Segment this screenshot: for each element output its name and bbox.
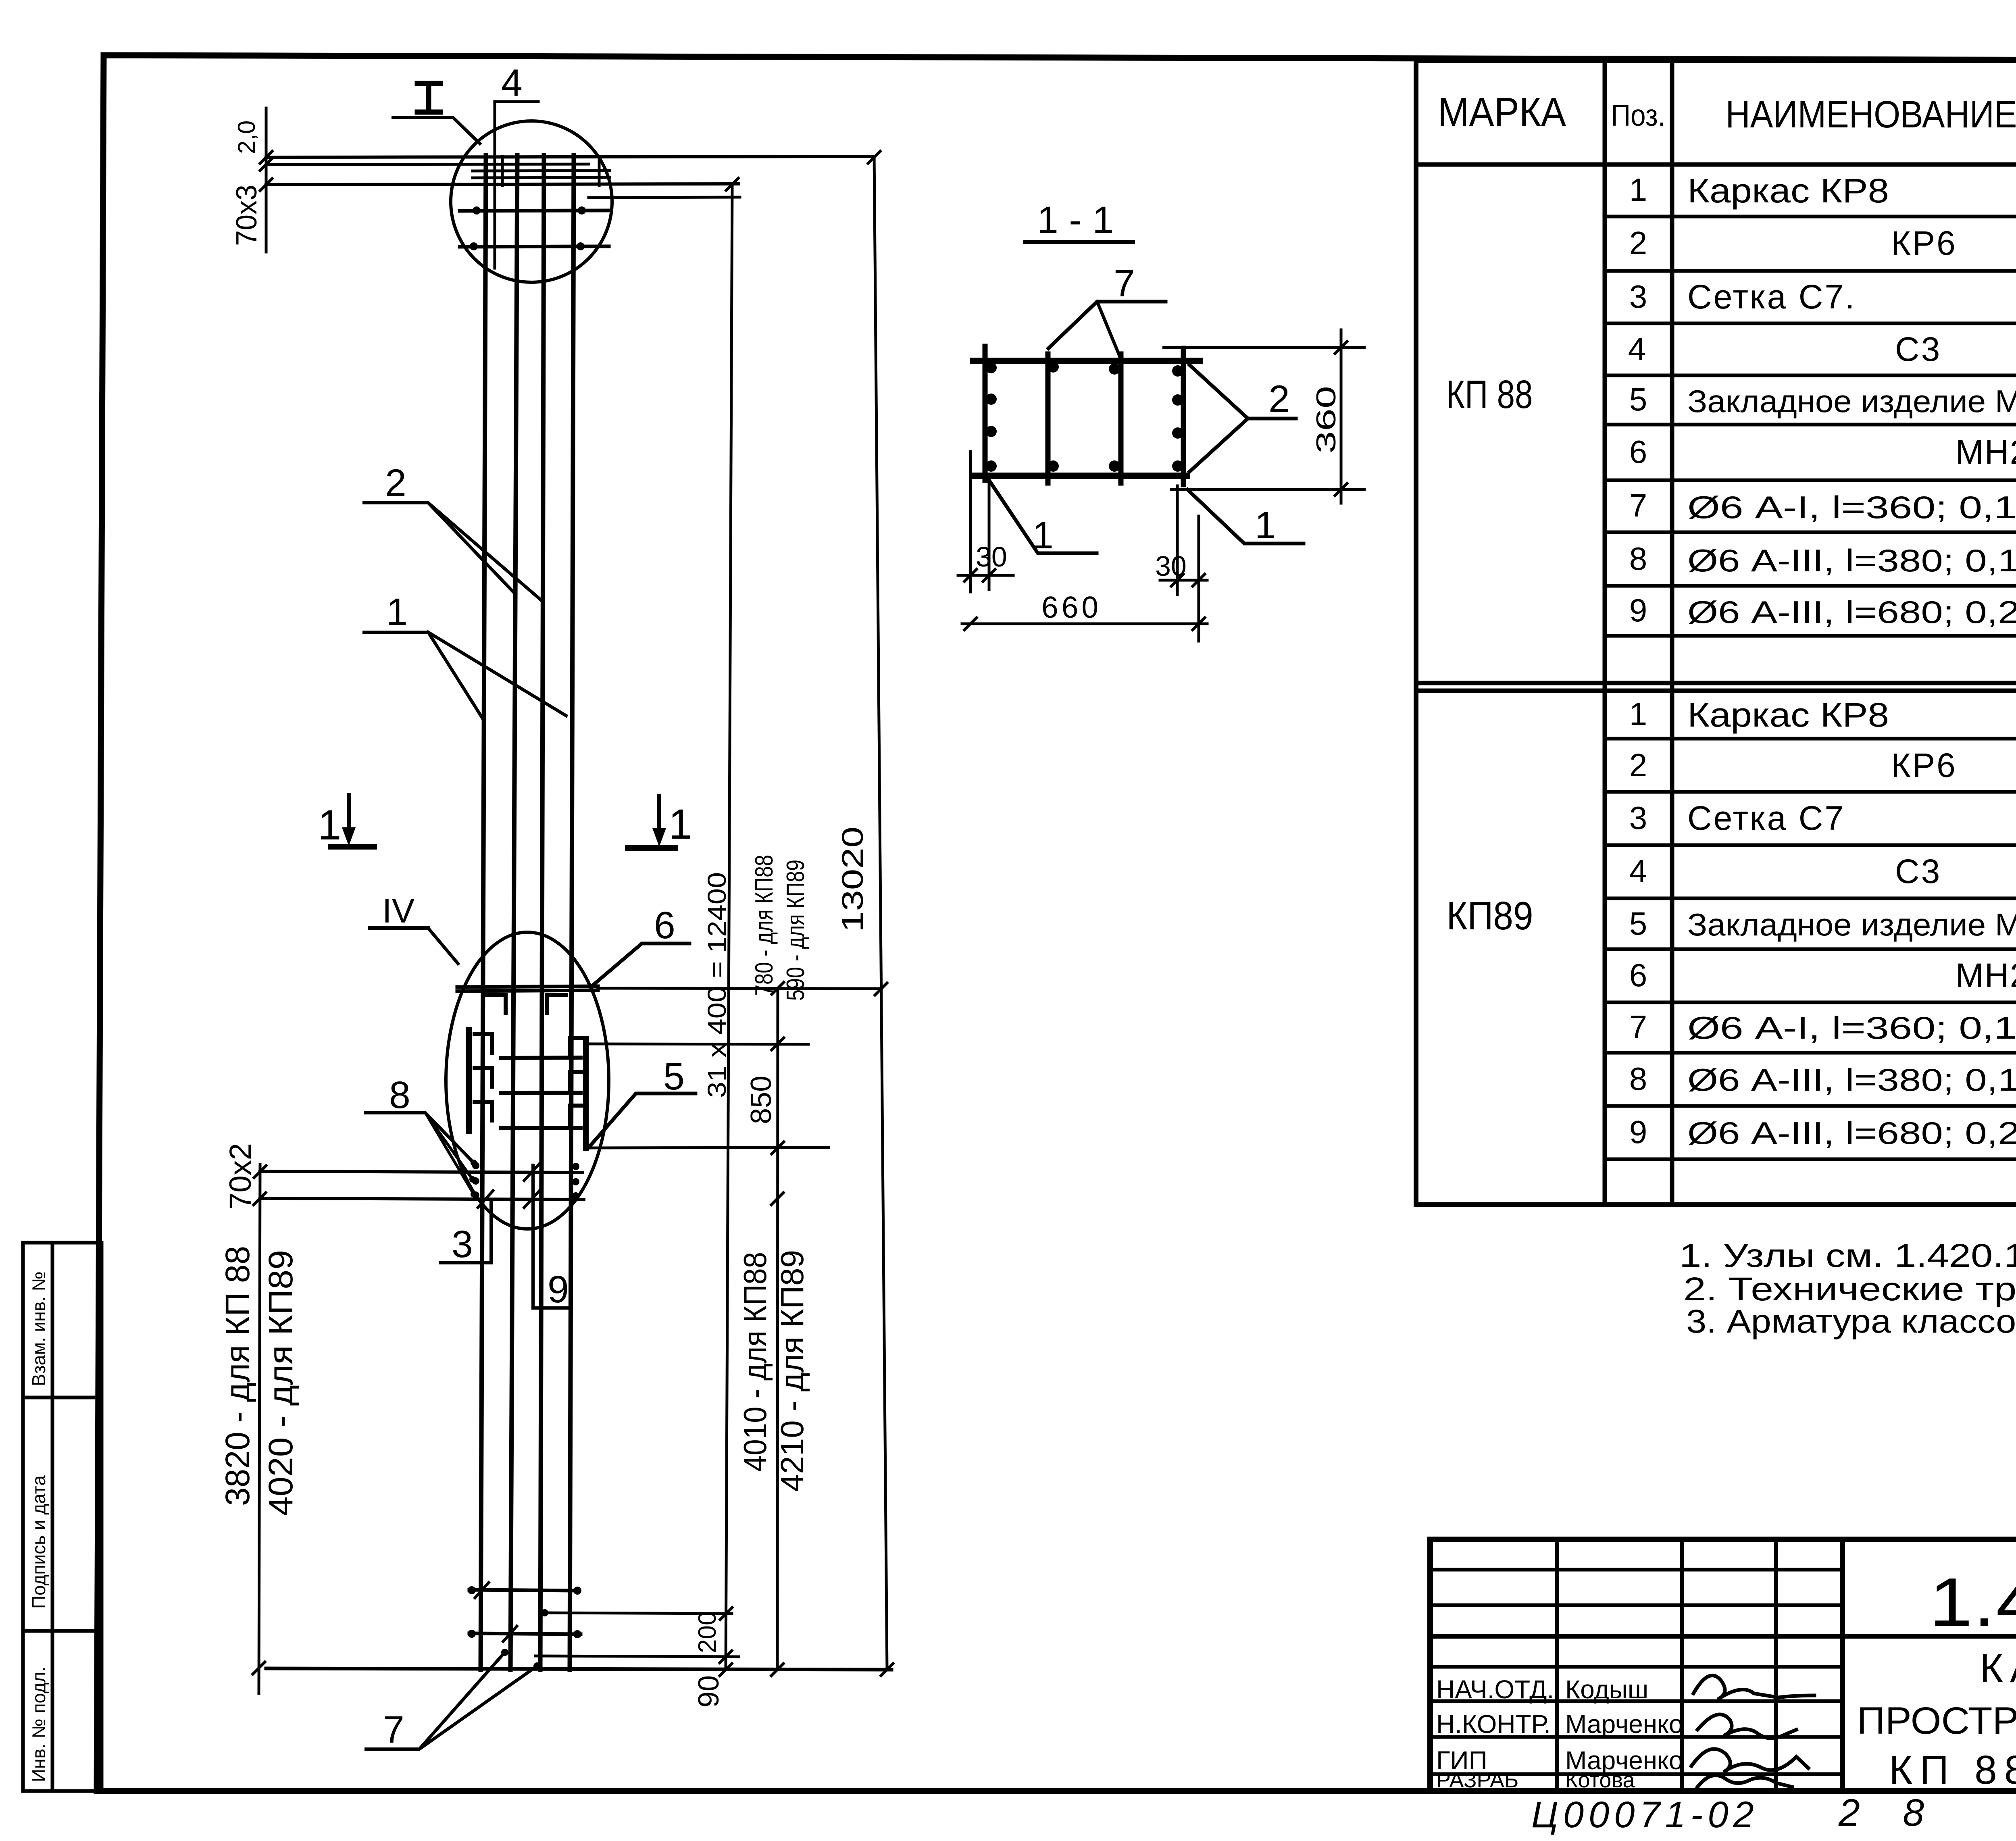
svg-text:Кодыш: Кодыш [1565, 1675, 1648, 1704]
title block line under code [1430, 1634, 2016, 1639]
svg-text:КР6: КР6 [1891, 224, 1957, 262]
bottom base line [266, 1668, 891, 1670]
detail circle I [451, 121, 612, 282]
svg-text:Ц00071-02: Ц00071-02 [1531, 1794, 1759, 1835]
top mesh line 4 [473, 177, 610, 178]
right dim line 1 [726, 184, 732, 1670]
svg-text:31 х 400 = 12400: 31 х 400 = 12400 [702, 872, 731, 1098]
dim 30 left line [958, 574, 1013, 577]
svg-text:С3: С3 [1895, 330, 1941, 368]
svg-text:1: 1 [669, 801, 692, 848]
svg-text:3: 3 [1629, 279, 1647, 314]
middle mesh double line bottom [457, 990, 598, 991]
svg-text:Взам. инв. №: Взам. инв. № [28, 1271, 49, 1386]
svg-text:4210 - для КП89: 4210 - для КП89 [774, 1250, 810, 1492]
svg-text:Закладное изделие МН8: Закладное изделие МН8 [1687, 907, 2016, 942]
dim 360 ext top [1164, 346, 1364, 349]
splice bar b [501, 1093, 581, 1093]
section bar 2 [1045, 354, 1051, 483]
svg-text:МН26: МН26 [1956, 433, 2016, 471]
dim 30 left ticks [964, 569, 977, 581]
svg-text:Ø6 А-III, l=680; 0,2 кг: Ø6 А-III, l=680; 0,2 кг [1687, 594, 2016, 630]
title block vertical a [1555, 1539, 1559, 1791]
group2 poz numbers [1629, 696, 1647, 1150]
dim3 ticks [868, 151, 880, 163]
svg-text:2: 2 [385, 462, 406, 504]
table column line Marka [1603, 60, 1607, 1205]
left dim line [259, 1164, 260, 1693]
plate hook right 3 [570, 1106, 587, 1124]
svg-text:МН21: МН21 [1956, 956, 2016, 994]
section bottom chord [975, 473, 1187, 479]
signature scribble 2 [1697, 1714, 1796, 1738]
splice slash b [524, 1191, 539, 1208]
svg-text:30: 30 [1155, 550, 1187, 582]
splice line upper [260, 1171, 583, 1172]
middle mesh extension to dims [598, 988, 881, 989]
longitudinal bar 3 [540, 155, 544, 1670]
svg-text:3. Арматура классов А-III, А: 3. Арматура классов А-III, А-I по ГОСТ 5… [1686, 1303, 2016, 1340]
svg-text:3: 3 [452, 1223, 473, 1266]
top dim line 20 70x3 [265, 108, 268, 252]
callout 2 shaft leaders [364, 503, 513, 592]
top mesh line 2 [266, 164, 589, 165]
label IV underline [370, 926, 428, 930]
left stamp box Vzam inv [23, 1243, 102, 1397]
bottom slash b [503, 1626, 517, 1641]
callout 1 left leader [989, 480, 1097, 553]
svg-text:КР6: КР6 [1891, 746, 1957, 784]
longitudinal bar 1 [481, 155, 486, 1670]
svg-text:7: 7 [1629, 1009, 1647, 1045]
group1 row lines [1605, 215, 2016, 219]
section top chord [973, 358, 1200, 364]
plate hook left 3 [475, 1102, 492, 1120]
section marker 1 right arrow [657, 796, 661, 837]
svg-text:1: 1 [1032, 514, 1054, 557]
label IV leader [428, 928, 458, 964]
dim box bottom line [588, 1148, 829, 1148]
callout 3 leader [441, 1202, 491, 1263]
top mesh vertical wire b [598, 156, 601, 185]
section right bar [1181, 348, 1186, 485]
dim 360 line [1340, 330, 1343, 503]
table column line Poz [1670, 60, 1674, 1205]
svg-text:МАРКА: МАРКА [1438, 90, 1566, 135]
svg-text:Ø6 А-III, l=680; 0,2 кг: Ø6 А-III, l=680; 0,2 кг [1687, 1115, 2016, 1151]
svg-text:1 - 1: 1 - 1 [1037, 199, 1114, 242]
svg-text:4: 4 [1628, 331, 1646, 367]
mesh C3 upper [460, 210, 609, 211]
top mesh line 5 long [266, 184, 739, 185]
dim 30 right vert b [1198, 516, 1200, 641]
svg-text:Сетка С7.: Сетка С7. [1687, 278, 1856, 316]
svg-text:Ø6 А-III, l=380; 0,1 кг: Ø6 А-III, l=380; 0,1 кг [1687, 543, 2016, 578]
dim 30 right vert a [1176, 486, 1179, 595]
svg-text:360: 360 [1311, 386, 1341, 454]
spec table outer box [1416, 60, 2016, 1205]
bottom slash a [475, 1583, 489, 1598]
svg-text:Марченко: Марченко [1565, 1710, 1683, 1739]
splice slash a [524, 1164, 539, 1181]
svg-text:70х2: 70х2 [223, 1143, 258, 1210]
signer labels [1436, 1675, 1554, 1792]
splice bar c [501, 1128, 581, 1128]
svg-text:1: 1 [1629, 172, 1647, 208]
section marker 1 left arrow [347, 795, 351, 835]
plate hook left 2 [475, 1068, 492, 1087]
svg-text:Ø6 А-III, l=380; 0,1 кг: Ø6 А-III, l=380; 0,1 кг [1687, 1062, 2016, 1098]
svg-text:9: 9 [548, 1268, 569, 1311]
svg-text:3: 3 [1629, 800, 1647, 836]
svg-text:КАРКАС: КАРКАС [1980, 1646, 2016, 1691]
callout 9 leader [533, 1165, 569, 1308]
signature scribble 3 [1691, 1749, 1808, 1772]
longitudinal bar 2 [510, 155, 517, 1670]
svg-text:Котова: Котова [1565, 1768, 1635, 1792]
svg-text:1: 1 [1255, 504, 1276, 547]
callout 8 leaders [366, 1113, 474, 1163]
plate hook right 1 [570, 1038, 587, 1056]
svg-text:8: 8 [1629, 1061, 1647, 1097]
svg-text:70х3: 70х3 [231, 185, 263, 246]
dim 660 ticks [964, 618, 977, 630]
splice bar a [501, 1058, 581, 1058]
section 1-1 title underline [1025, 240, 1133, 244]
svg-text:4: 4 [1629, 853, 1647, 889]
svg-text:4020 - для КП89: 4020 - для КП89 [262, 1250, 300, 1516]
top mesh vertical wire a [501, 156, 504, 185]
bottom stirrup line a [469, 1590, 579, 1591]
left dim ticks [254, 1166, 266, 1178]
svg-text:Ø6 А-I, l=360; 0,1 кг: Ø6 А-I, l=360; 0,1 кг [1687, 1010, 2016, 1045]
label I leader [393, 117, 480, 144]
dim box top line [586, 1044, 808, 1044]
svg-text:1: 1 [318, 802, 341, 849]
svg-text:1: 1 [386, 591, 408, 633]
splice line lower [260, 1198, 584, 1200]
svg-text:4010 - для КП88: 4010 - для КП88 [737, 1252, 773, 1472]
svg-text:8: 8 [389, 1074, 410, 1116]
dim 360 ext bottom [1172, 488, 1364, 491]
column top edge line [266, 156, 874, 157]
callout 2 leaders [1189, 365, 1296, 419]
title block outer box [1430, 1539, 2016, 1791]
svg-text:90: 90 [693, 1675, 725, 1708]
signature scribble 4 [1697, 1775, 1792, 1787]
tick top c [260, 179, 272, 191]
bottom ext line 90 [535, 1656, 739, 1657]
right dim line 3 total [874, 156, 887, 1670]
svg-text:КП89: КП89 [1447, 893, 1533, 938]
svg-text:9: 9 [1629, 592, 1647, 628]
group separator line a [1416, 681, 2016, 685]
callout 1 right leader [1187, 489, 1304, 544]
svg-text:7: 7 [1114, 262, 1135, 305]
svg-text:2 8: 2 8 [1838, 1791, 1940, 1834]
label 4 leader [495, 102, 538, 268]
svg-text:С3: С3 [1895, 852, 1941, 890]
svg-text:2,0: 2,0 [233, 121, 260, 154]
svg-text:6: 6 [654, 904, 675, 947]
embedded plate right MN8 [583, 1043, 589, 1148]
svg-text:Н.КОНТР.: Н.КОНТР. [1436, 1710, 1551, 1739]
callout 1 shaft leaders [364, 632, 483, 718]
dim 360 ticks [1335, 342, 1347, 354]
plate hook right 2 [570, 1072, 587, 1090]
svg-text:Сетка С7: Сетка С7 [1687, 799, 1845, 837]
svg-text:Каркас КР8: Каркас КР8 [1687, 696, 1889, 734]
svg-text:Ø6 А-I, l=360; 0,1 кг: Ø6 А-I, l=360; 0,1 кг [1687, 489, 2016, 525]
svg-text:3820 - для КП 88: 3820 - для КП 88 [219, 1246, 256, 1506]
group1 poz numbers [1628, 172, 1647, 628]
title block vertical d main [1840, 1539, 1845, 1791]
right dim line 2 [777, 988, 778, 1670]
title block row lines left [1430, 1568, 1843, 1572]
splice slash c [478, 1191, 493, 1208]
svg-text:6: 6 [1629, 957, 1647, 993]
svg-text:Каркас КР8: Каркас КР8 [1687, 172, 1889, 210]
section bar 3 [1118, 354, 1124, 483]
svg-text:1.420.1-32.2-2-22: 1.420.1-32.2-2-22 [1929, 1564, 2016, 1641]
dim2 ticks [772, 982, 784, 994]
svg-text:Закладное изделие МН8: Закладное изделие МН8 [1687, 383, 2016, 419]
mesh C3 lower [460, 246, 609, 247]
tick top b [260, 158, 272, 171]
svg-text:1. Узлы см. 1.420.1-32.2-2У: 1. Узлы см. 1.420.1-32.2-2У [1679, 1237, 2016, 1274]
svg-text:780 - для КП88: 780 - для КП88 [750, 855, 778, 996]
callout 6 leader [591, 943, 689, 987]
dim 30 right ticks [1171, 574, 1183, 586]
svg-text:5: 5 [1629, 906, 1647, 941]
longitudinal bar 4 [570, 155, 574, 1670]
embedded hook top right [547, 995, 566, 1013]
embedded hook top left [487, 995, 506, 1013]
svg-text:РАЗРАБ: РАЗРАБ [1436, 1768, 1518, 1792]
signer names [1565, 1675, 1683, 1792]
table header bottom line [1416, 162, 2016, 167]
svg-text:2. Технические требования см.: 2. Технические требования см. 1.420.1-32… [1683, 1271, 2016, 1308]
svg-text:2: 2 [1629, 225, 1647, 261]
svg-text:IV: IV [382, 892, 415, 930]
svg-text:200: 200 [694, 1612, 721, 1653]
plate hook left 1 [475, 1034, 492, 1053]
bottom stirrup line b [469, 1633, 581, 1634]
left stamp divider line [51, 1243, 54, 1791]
top mesh extension line [589, 197, 740, 198]
svg-text:2: 2 [1629, 747, 1647, 783]
detail ellipse IV [446, 932, 609, 1229]
svg-text:7: 7 [383, 1708, 404, 1751]
svg-text:4: 4 [501, 62, 523, 104]
label I glyph [417, 81, 440, 86]
svg-text:1: 1 [1629, 696, 1647, 732]
top mesh line 3 [473, 171, 610, 171]
title block vertical c [1774, 1539, 1778, 1791]
dim 660 line [962, 623, 1207, 625]
svg-text:8: 8 [1629, 541, 1647, 577]
bottom ext line 200 [545, 1613, 732, 1614]
section bar dots [985, 361, 1183, 472]
svg-text:НАЧ.ОТД.: НАЧ.ОТД. [1436, 1675, 1554, 1704]
dim1 ticks [726, 178, 738, 190]
svg-text:30: 30 [976, 541, 1007, 573]
mesh C3 end dots top [473, 206, 481, 215]
group2 names [1687, 696, 2016, 1151]
title block vertical b [1680, 1539, 1684, 1791]
svg-text:НАИМЕНОВАНИЕ: НАИМЕНОВАНИЕ [1726, 93, 2016, 136]
callout 7 section leaders [1048, 302, 1166, 348]
middle mesh double line top [457, 986, 598, 987]
dim 30 left vert b [988, 480, 991, 589]
svg-text:ПРОСТРАНСТВЕННЫЙ: ПРОСТРАНСТВЕННЫЙ [1857, 1699, 2016, 1742]
section left bar [983, 346, 988, 480]
svg-text:590 - для КП89: 590 - для КП89 [782, 860, 810, 1001]
tick top a [260, 151, 272, 163]
leader end dots [468, 1160, 581, 1670]
group separator line b [1416, 689, 2016, 693]
svg-text:Подпись и дата: Подпись и дата [28, 1475, 49, 1609]
group1 names [1687, 172, 2016, 630]
svg-text:13020: 13020 [836, 827, 869, 932]
svg-text:2: 2 [1268, 378, 1290, 421]
callout 5 leader [589, 1093, 696, 1148]
svg-text:660: 660 [1041, 590, 1102, 624]
svg-text:5: 5 [1629, 381, 1647, 417]
splice dots [470, 206, 586, 1200]
svg-text:7: 7 [1629, 487, 1647, 523]
svg-text:5: 5 [663, 1055, 685, 1098]
svg-text:850: 850 [745, 1076, 777, 1124]
group2 row lines [1605, 737, 2016, 741]
svg-text:Инв. № подл.: Инв. № подл. [28, 1666, 49, 1782]
svg-text:6: 6 [1629, 434, 1647, 470]
svg-text:9: 9 [1629, 1114, 1647, 1150]
left stamp box Inv No podl [23, 1631, 102, 1791]
signature scribble 1 [1693, 1675, 1814, 1699]
dim 30 right line [1160, 579, 1207, 582]
svg-text:Поз.: Поз. [1611, 98, 1666, 132]
svg-text:КП 88: КП 88 [1446, 372, 1533, 417]
left stamp box Podpis i data [23, 1397, 102, 1631]
embedded plate left [466, 1030, 472, 1131]
callout 7 leaders [366, 1652, 505, 1749]
dim 30 left vert a [969, 452, 972, 592]
